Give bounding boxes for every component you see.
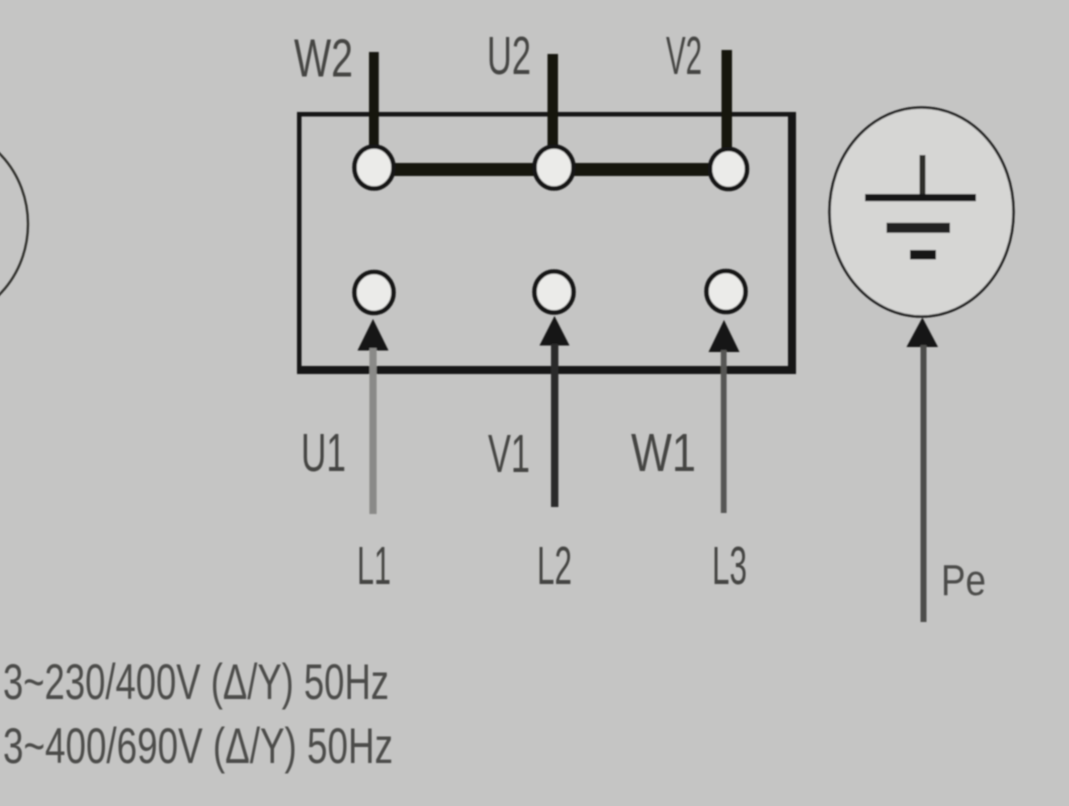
svg-text:Pe: Pe	[941, 556, 986, 605]
svg-text:L2: L2	[537, 536, 572, 596]
svg-text:W2: W2	[294, 29, 353, 89]
wire Pe arrow into earth circle	[907, 318, 939, 623]
svg-text:L3: L3	[712, 536, 747, 596]
svg-text:3~230/400V (Δ/Y) 50Hz: 3~230/400V (Δ/Y) 50Hz	[3, 654, 389, 710]
wire L2 arrow into V1	[540, 316, 570, 507]
terminal U2	[535, 147, 574, 189]
svg-text:V1: V1	[488, 424, 530, 484]
earth symbol circle	[830, 108, 1014, 317]
terminal W2	[355, 147, 394, 189]
wire W2 feed	[369, 52, 379, 152]
wire L1 arrow into U1	[358, 319, 389, 514]
terminal W1	[707, 271, 746, 312]
svg-text:L1: L1	[357, 536, 391, 596]
svg-text:W1: W1	[631, 423, 696, 483]
svg-text:U1: U1	[301, 423, 346, 483]
svg-text:3~400/690V (Δ/Y) 50Hz: 3~400/690V (Δ/Y) 50Hz	[3, 718, 393, 774]
terminal V2	[710, 149, 747, 189]
left partial earth circle (cut off at image edge)	[0, 127, 28, 321]
svg-text:U2: U2	[487, 26, 531, 86]
svg-text:V2: V2	[666, 26, 702, 86]
terminal U1	[355, 272, 394, 313]
wire V2 feed	[722, 50, 733, 152]
terminal V1	[535, 272, 574, 313]
ground symbol	[865, 155, 976, 260]
wire L3 arrow into W1	[709, 320, 740, 513]
terminal box	[297, 112, 796, 374]
star bridge bar W2-U2-V2	[374, 163, 729, 176]
wire U2 feed	[548, 54, 559, 152]
